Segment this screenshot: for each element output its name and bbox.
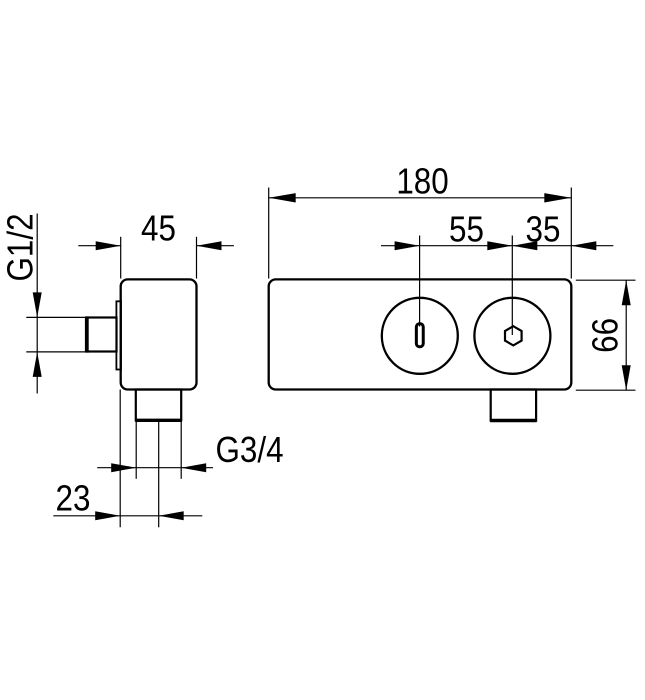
thread G3/4 dim line	[97, 467, 213, 469]
thread G1/2 top arrow	[33, 292, 42, 317]
extension line left circle centerline	[419, 236, 421, 327]
front view outlet stub	[491, 390, 536, 421]
svg-text:45: 45	[141, 209, 176, 250]
thread G1/2 bottom arrow	[33, 352, 42, 377]
dimension 45 right arrow	[197, 241, 222, 250]
dimension 35 left arrow	[487, 241, 512, 250]
dimension 55 right arrow	[512, 241, 537, 250]
extension line right circle centerline	[511, 236, 513, 336]
dimension 66 bottom extension line	[576, 389, 636, 391]
thread G3/4 left extension line	[135, 421, 137, 479]
thread G3/4 left arrow	[111, 463, 136, 472]
svg-text:35: 35	[526, 210, 561, 251]
svg-text:180: 180	[396, 161, 448, 202]
front view outlet thread end (thick)	[490, 419, 537, 422]
dimension 66 dim line	[625, 280, 627, 390]
dimension 55/35 dim line	[381, 245, 613, 247]
front view hex socket	[505, 326, 522, 345]
thread G3/4 right arrow	[181, 463, 206, 472]
dimension 23 left extension line	[119, 390, 121, 528]
front view body	[269, 279, 572, 389]
thread G3/4 right extension line	[180, 421, 182, 479]
dimension 45 left arrow	[96, 241, 121, 250]
thread G1/2 top extension line	[26, 316, 85, 318]
dimension 180 right extension line	[570, 188, 572, 279]
dimension 66 top extension line	[576, 279, 636, 281]
dimension 45 dim line right part	[197, 245, 234, 247]
dimension 35 right arrow	[571, 241, 596, 250]
front view right handle circle	[474, 298, 550, 374]
side view outlet stub	[136, 390, 181, 421]
side view inlet stub thread end (thick)	[85, 316, 89, 352]
dimension 45 dim line left part	[78, 245, 120, 247]
dimension 55 left arrow	[395, 241, 420, 250]
dimension 23 right arrow	[159, 511, 184, 520]
side view wall plate	[116, 301, 121, 369]
thread G1/2 bottom extension line	[26, 351, 85, 353]
svg-text:G3/4: G3/4	[216, 430, 284, 471]
svg-text:55: 55	[449, 210, 484, 251]
dimension 180 dim line	[269, 197, 572, 199]
dimension 23 left arrow	[95, 511, 120, 520]
dimension 180 right arrow	[544, 193, 571, 202]
svg-text:23: 23	[56, 479, 91, 520]
side view inlet stub G1/2	[87, 318, 117, 352]
dimension 45 right extension line	[196, 237, 198, 279]
dimension 66 top arrow	[622, 280, 631, 305]
dimension 23 dim line	[53, 515, 202, 517]
dimension 45 left extension line	[120, 237, 122, 279]
outlet centerline	[158, 421, 160, 528]
front view left handle circle	[382, 298, 458, 374]
svg-text:66: 66	[585, 318, 626, 353]
front view left handle slot	[416, 324, 423, 347]
thread G1/2 dim line	[36, 214, 38, 394]
dimension 180 left arrow	[269, 193, 296, 202]
svg-text:G1/2: G1/2	[0, 213, 41, 281]
side view outlet thread end (thick)	[135, 419, 182, 422]
dimension 180 left extension line	[268, 188, 270, 279]
side view body	[121, 279, 197, 389]
dimension 66 bottom arrow	[622, 365, 631, 390]
